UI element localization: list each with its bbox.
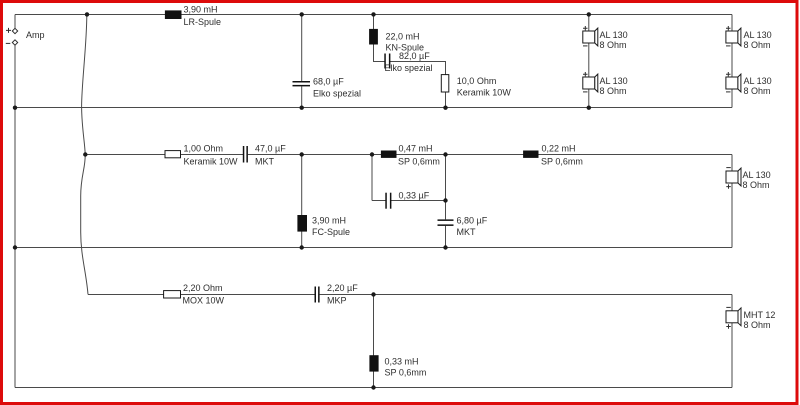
node junction mid rail curve	[83, 152, 87, 156]
speaker LS2 plus	[583, 72, 588, 76]
capacitor C2 82,0 uF plate left	[384, 54, 386, 69]
svg-text:Elko spezial: Elko spezial	[385, 63, 433, 73]
wire C82 to R10	[390, 62, 446, 108]
svg-text:AL 130: AL 130	[744, 76, 772, 86]
wire L033 branch	[373, 295, 375, 388]
svg-text:8 Ohm: 8 Ohm	[744, 86, 771, 96]
node junction top rail KN branch	[371, 12, 375, 16]
svg-text:Keramik 10W: Keramik 10W	[457, 88, 512, 98]
speaker LS4 minus	[726, 91, 731, 93]
svg-text:1,00 Ohm: 1,00 Ohm	[184, 144, 224, 154]
capacitor C5 6,80 uF plate bottom	[438, 224, 454, 226]
amp plus sign	[6, 28, 11, 33]
speaker LS5 AL 130 square	[726, 171, 738, 183]
wire speaker branch right	[731, 15, 733, 108]
node junction bottom rail L033	[371, 292, 375, 296]
node amp plus terminal	[12, 28, 17, 33]
capacitor C1 68,0 uF plate bottom	[293, 85, 311, 87]
capacitor C4 0,33 uF plate left	[385, 193, 387, 209]
wire mid rail right of C47	[248, 154, 732, 156]
node junction top rail C68 branch	[300, 12, 304, 16]
speaker LS2 cone	[595, 74, 598, 92]
node junction top rail speaker branch	[587, 12, 591, 16]
wire return rail 1	[15, 107, 732, 109]
node amp minus terminal	[12, 40, 17, 45]
capacitor C6 2,20 uF plate left	[315, 287, 317, 303]
wire mid rail left of C47	[85, 154, 243, 156]
svg-text:0,33 mH: 0,33 mH	[385, 356, 419, 366]
wire bottom return rail	[15, 387, 732, 389]
svg-text:MKT: MKT	[255, 156, 275, 166]
svg-text:LR-Spule: LR-Spule	[184, 17, 222, 27]
capacitor C5 6,80 uF plate top	[438, 219, 454, 221]
capacitor C1 68,0 uF plate top	[293, 81, 311, 83]
svg-text:Keramik 10W: Keramik 10W	[184, 156, 239, 166]
svg-text:10,0 Ohm: 10,0 Ohm	[457, 76, 497, 86]
inductor L1 3,90 mH LR-Spule	[165, 10, 182, 19]
svg-text:AL 130: AL 130	[600, 30, 628, 40]
wire KN branch to C82	[373, 61, 385, 63]
wire speaker branch left	[588, 15, 590, 108]
wire C68mid branch upper	[445, 155, 447, 220]
amp minus sign	[6, 42, 11, 44]
svg-text:AL 130: AL 130	[600, 76, 628, 86]
capacitor C3 47,0 uF plate right	[246, 146, 248, 163]
capacitor C6 2,20 uF plate right	[318, 287, 320, 303]
svg-text:8 Ohm: 8 Ohm	[743, 180, 770, 190]
node junction return1 R10	[443, 106, 447, 110]
inductor L2 22,0 mH KN-Spule	[369, 29, 378, 45]
speaker LS2 AL 130 square	[583, 77, 595, 89]
speaker LS6 minus	[726, 306, 731, 308]
svg-text:0,47 mH: 0,47 mH	[399, 144, 433, 154]
svg-text:8 Ohm: 8 Ohm	[600, 40, 627, 50]
node junction bottom return L033	[371, 385, 375, 389]
speaker LS1 plus	[583, 26, 588, 30]
wire C68mid branch lower	[445, 226, 447, 248]
resistor R1 10,0 Ohm	[441, 75, 449, 92]
wire mid return rail	[15, 247, 732, 249]
svg-text:8 Ohm: 8 Ohm	[600, 86, 627, 96]
speaker LS5 plus	[726, 184, 731, 188]
speaker LS3 cone	[738, 28, 741, 46]
wire amp plus to top rail	[14, 15, 16, 29]
speaker LS1 minus	[583, 45, 588, 47]
svg-text:82,0 µF: 82,0 µF	[399, 51, 430, 61]
speaker LS3 plus	[726, 26, 731, 30]
inductor L5 3,90 mH FC-Spule	[297, 215, 307, 232]
wire C033 right horizontal	[391, 200, 446, 202]
svg-text:3,90 mH: 3,90 mH	[312, 216, 346, 226]
wire C033 branch vertical	[371, 155, 373, 201]
svg-text:8 Ohm: 8 Ohm	[744, 320, 771, 330]
speaker LS3 minus	[726, 45, 731, 47]
svg-text:Amp: Amp	[26, 30, 45, 40]
capacitor C2 82,0 uF plate right	[389, 54, 391, 69]
wire C68 branch upper	[301, 15, 303, 82]
resistor R2 1,00 Ohm	[165, 151, 181, 158]
node junction mid return amp	[13, 245, 17, 249]
svg-text:MOX 10W: MOX 10W	[183, 296, 225, 306]
svg-text:22,0 mH: 22,0 mH	[386, 31, 420, 41]
capacitor C4 0,33 uF plate right	[390, 193, 392, 209]
wire amp minus down left side	[14, 45, 16, 388]
svg-text:68,0 µF: 68,0 µF	[313, 77, 344, 87]
svg-text:6,80 µF: 6,80 µF	[457, 216, 488, 226]
svg-text:47,0 µF: 47,0 µF	[255, 144, 286, 154]
speaker LS6 plus	[726, 324, 731, 328]
node junction mid rail FC branch	[300, 152, 304, 156]
wire tweeter branch	[731, 295, 733, 388]
svg-text:SP 0,6mm: SP 0,6mm	[385, 368, 427, 378]
node junction return1 amp	[13, 106, 17, 110]
node junction mid return FC	[300, 245, 304, 249]
capacitor C3 47,0 uF plate left	[243, 146, 245, 163]
speaker LS5 minus	[726, 167, 731, 169]
node junction C033 right	[443, 198, 447, 202]
svg-text:3,90 mH: 3,90 mH	[184, 4, 218, 14]
inductor L6 0,33 mH	[369, 355, 378, 371]
svg-text:2,20 µF: 2,20 µF	[327, 283, 358, 293]
node junction return1 speaker branch	[587, 106, 591, 110]
svg-text:SP 0,6mm: SP 0,6mm	[541, 156, 583, 166]
inductor L4 0,22 mH	[523, 151, 538, 158]
speaker LS2 minus	[583, 91, 588, 93]
wire top rail	[15, 14, 732, 16]
node junction return1 C68	[300, 106, 304, 110]
wire FC-Spule branch	[301, 155, 303, 248]
wire KN-Spule branch vertical	[373, 15, 375, 62]
svg-text:MKP: MKP	[327, 296, 347, 306]
wire mid speaker branch	[731, 155, 733, 248]
node junction mid rail L047 left	[370, 152, 374, 156]
svg-text:AL 130: AL 130	[743, 170, 771, 180]
wire C033 left horizontal	[372, 200, 386, 202]
wire C68 branch lower	[301, 86, 303, 107]
svg-text:SP 0,6mm: SP 0,6mm	[398, 156, 440, 166]
speaker LS5 cone	[738, 168, 741, 186]
speaker LS4 AL 130 square	[726, 77, 738, 89]
svg-text:0,33 µF: 0,33 µF	[399, 190, 430, 200]
svg-text:FC-Spule: FC-Spule	[312, 227, 350, 237]
speaker LS1 cone	[595, 28, 598, 46]
wire bottom rail right of C2.2	[320, 294, 732, 296]
node junction mid return C68mid	[443, 245, 447, 249]
speaker LS6 cone	[738, 308, 741, 326]
svg-text:8 Ohm: 8 Ohm	[744, 40, 771, 50]
wire curve from amp node to mid and bottom sections	[81, 14, 88, 294]
node junction top rail curve	[85, 12, 89, 16]
node junction mid rail L047 right	[443, 152, 447, 156]
svg-text:MKT: MKT	[457, 227, 477, 237]
speaker LS3 AL 130 square	[726, 31, 738, 43]
svg-text:0,22 mH: 0,22 mH	[542, 144, 576, 154]
resistor R3 2,20 Ohm	[164, 291, 181, 298]
svg-text:AL 130: AL 130	[744, 30, 772, 40]
wire bottom rail left of C2.2	[88, 294, 315, 296]
speaker LS4 cone	[738, 74, 741, 92]
inductor L3 0,47 mH	[381, 151, 397, 158]
svg-text:2,20 Ohm: 2,20 Ohm	[183, 283, 223, 293]
svg-text:MHT 12: MHT 12	[744, 310, 776, 320]
speaker LS4 plus	[726, 72, 731, 76]
speaker LS1 AL 130 square	[583, 31, 595, 43]
svg-text:Elko spezial: Elko spezial	[313, 88, 361, 98]
speaker LS6 MHT 12 square	[726, 311, 738, 323]
